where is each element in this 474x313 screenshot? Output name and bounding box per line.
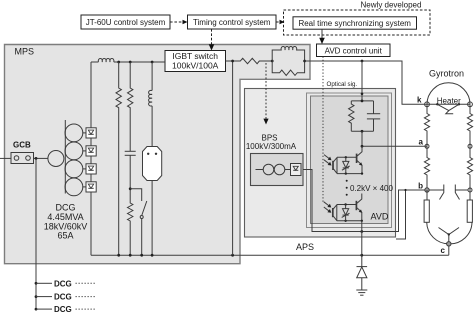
- svg-text:AVD control unit: AVD control unit: [325, 46, 383, 55]
- svg-text:APS: APS: [296, 242, 314, 252]
- svg-text:Optical sig.: Optical sig.: [327, 81, 358, 88]
- svg-text:JT-60U control system: JT-60U control system: [86, 18, 166, 27]
- svg-text:AVD: AVD: [371, 212, 389, 222]
- svg-text:Gyrotron: Gyrotron: [429, 69, 464, 79]
- svg-text:100kV/100A: 100kV/100A: [172, 61, 219, 71]
- svg-text:DCG: DCG: [54, 279, 72, 288]
- svg-text:65A: 65A: [57, 231, 73, 241]
- svg-text:k: k: [417, 96, 422, 105]
- svg-text:Real time synchronizing system: Real time synchronizing system: [298, 19, 411, 28]
- svg-text:c: c: [441, 246, 446, 255]
- svg-text:0.2kV × 400: 0.2kV × 400: [350, 184, 393, 193]
- svg-text:b: b: [418, 181, 423, 190]
- svg-text:Timing control system: Timing control system: [193, 18, 271, 27]
- svg-text:a: a: [419, 138, 424, 147]
- svg-text:DCG: DCG: [54, 293, 72, 302]
- svg-text:DCG: DCG: [54, 305, 72, 313]
- svg-text:Heater: Heater: [437, 96, 461, 105]
- svg-text:MPS: MPS: [15, 47, 35, 57]
- svg-text:Newly developed: Newly developed: [361, 1, 422, 10]
- svg-text:100kV/300mA: 100kV/300mA: [246, 142, 297, 151]
- svg-text:IGBT switch: IGBT switch: [172, 51, 218, 61]
- svg-text:GCB: GCB: [13, 141, 31, 150]
